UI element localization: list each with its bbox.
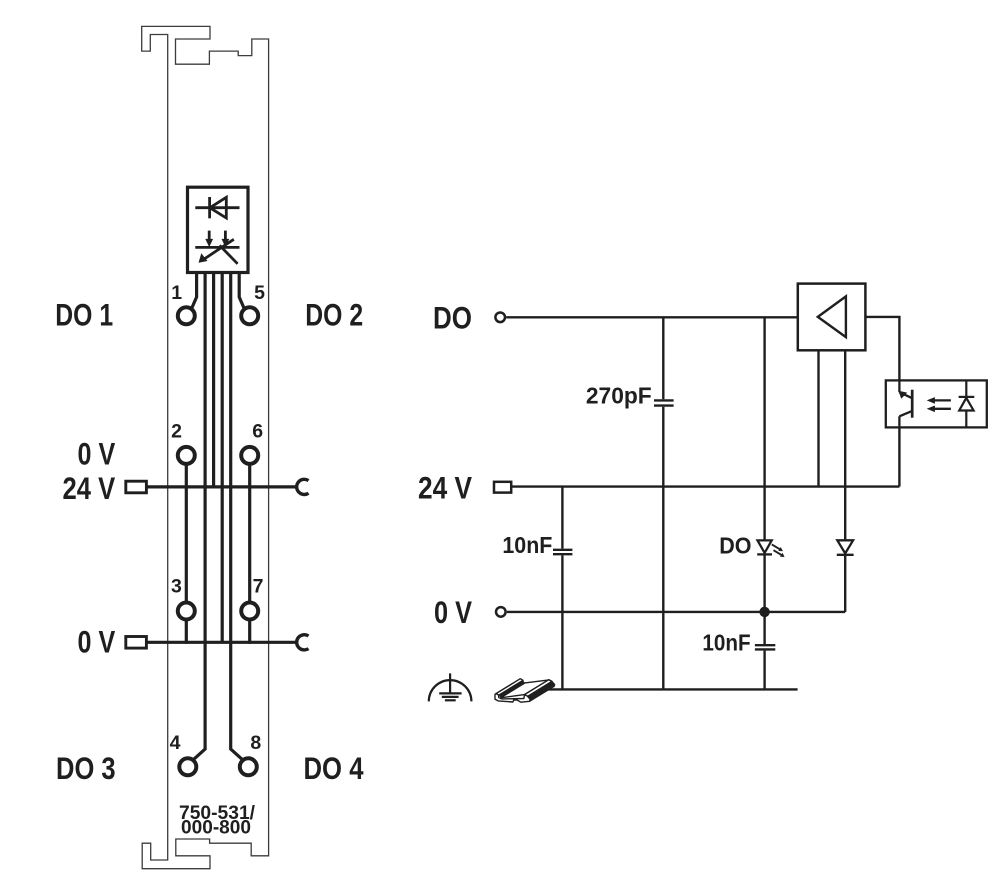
wire optocoupler to 24V rail (898, 427, 900, 486)
module housing outline (142, 26, 269, 868)
wire buffer left leg to 24V (817, 350, 819, 486)
wire contact 6 to contact 7 (248, 464, 251, 602)
svg-text:DO: DO (719, 533, 751, 559)
contact circle 1 (178, 307, 195, 324)
right flange outer wall (528, 681, 555, 699)
optocoupler LED diode (959, 380, 975, 427)
junction node (759, 607, 769, 617)
svg-text:270pF: 270pF (586, 383, 652, 409)
svg-text:10nF: 10nF (702, 629, 750, 655)
pin wire to contact 8 (231, 273, 243, 760)
0V jumper contact hook (297, 635, 309, 650)
svg-text:2: 2 (171, 421, 182, 443)
LED box diode symbol (top) (195, 197, 239, 218)
optocoupler box U3 (886, 380, 987, 427)
24V rail wire (147, 485, 297, 488)
pin 1 wire (192, 273, 197, 308)
svg-text:7: 7 (253, 576, 264, 598)
contact circle 2 (178, 447, 195, 464)
svg-text:DO 4: DO 4 (304, 750, 364, 786)
DIN rail icon (495, 679, 555, 703)
svg-text:DO: DO (433, 300, 472, 336)
wire buffer right leg (844, 350, 846, 540)
svg-text:3: 3 (171, 576, 182, 598)
wire contact 2 to contact 3 (185, 464, 188, 602)
LED D1 (757, 540, 772, 554)
right flange far end cap (549, 680, 555, 687)
diode D2 (837, 540, 854, 555)
LED indicator box U1 (188, 187, 249, 272)
24V wire (511, 485, 899, 487)
channel surface (501, 680, 549, 698)
contact circle 4 (179, 758, 196, 775)
wire contact 7 to 0V rail (248, 620, 251, 644)
svg-text:0 V: 0 V (78, 435, 116, 471)
svg-text:24 V: 24 V (63, 470, 116, 506)
pin wire to contact 4 (193, 273, 205, 760)
svg-text:000-800: 000-800 (181, 818, 251, 839)
wire DO branch to LED (763, 317, 765, 540)
pin wire to 24V rail (212, 273, 215, 487)
earth ground symbol (429, 673, 472, 701)
left flange inner wall (499, 680, 525, 698)
capacitor C3 10nF (755, 612, 775, 690)
wire diode D2 to 0V (844, 555, 846, 612)
rail near-end profile face (495, 694, 530, 703)
contact circle 6 (241, 447, 258, 464)
contact circle 3 (178, 603, 195, 620)
svg-text:5: 5 (254, 282, 265, 304)
contact circle 5 (241, 307, 258, 324)
24V jumper contact hook (297, 479, 309, 494)
svg-text:0 V: 0 V (434, 594, 472, 630)
0V terminal square (126, 637, 147, 649)
LED D1 emission arrows (772, 544, 782, 555)
phototransistor Q1 (899, 380, 912, 427)
contact circle 8 (240, 758, 257, 775)
svg-text:24 V: 24 V (418, 470, 472, 506)
optocoupler light arrows (935, 400, 951, 408)
0V terminal circle (496, 607, 506, 617)
0V wire (507, 611, 845, 613)
buffer triangle (818, 296, 846, 337)
contact circle 7 (241, 603, 258, 620)
left flange top face (496, 679, 523, 696)
ground rail wire (545, 688, 798, 690)
svg-text:10nF: 10nF (502, 532, 552, 558)
right flange lip strip (530, 685, 555, 702)
0V rail wire (147, 641, 297, 644)
svg-text:DO 1: DO 1 (55, 297, 113, 333)
svg-text:DO 2: DO 2 (305, 297, 363, 333)
svg-text:8: 8 (250, 732, 261, 754)
svg-text:6: 6 (252, 421, 263, 443)
svg-text:0 V: 0 V (78, 623, 116, 659)
svg-text:4: 4 (170, 732, 181, 754)
capacitor C2 10nF (553, 487, 572, 690)
DO wire (506, 316, 798, 318)
svg-text:DO 3: DO 3 (56, 750, 116, 786)
24V terminal square (494, 482, 511, 493)
LED box arrows symbol (bottom) (195, 231, 239, 264)
right flange top face (525, 680, 552, 697)
buffer box U2 (798, 284, 866, 351)
svg-text:1: 1 (171, 282, 182, 304)
capacitor C1 270pF (654, 317, 674, 689)
wire LED to 0V (763, 554, 765, 612)
DO terminal circle (495, 313, 505, 323)
pin wire to 0V rail (221, 273, 224, 643)
24V terminal square (126, 481, 147, 493)
pin 5 wire (239, 273, 244, 308)
wire contact 3 to 0V rail (185, 620, 188, 644)
wire buffer to optocoupler (865, 317, 899, 381)
